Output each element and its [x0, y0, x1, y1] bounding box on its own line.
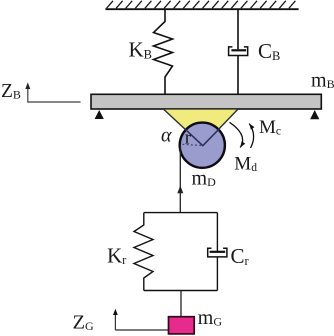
- svg-text:KB: KB: [129, 38, 153, 62]
- spring Kr on box left edge: [134, 213, 153, 291]
- svg-text:α: α: [161, 125, 172, 147]
- damper CB cup: [229, 47, 248, 56]
- radius r dashed line: [183, 144, 202, 145]
- axis ZG vertical: [114, 312, 116, 330]
- pendulum V lines: [185, 129, 219, 146]
- absorber box bottom edge: [144, 290, 218, 292]
- ceiling hatching: [107, 1, 296, 9]
- torque arc Mc: [249, 124, 253, 149]
- torque arc Md: [230, 122, 243, 147]
- cone edges: [164, 110, 238, 146]
- svg-text:Mc: Mc: [259, 117, 281, 138]
- axis ZG horizontal: [115, 329, 177, 331]
- spring KB: [154, 9, 173, 95]
- damper CB rod top: [237, 9, 239, 49]
- svg-text:Kr: Kr: [107, 243, 127, 267]
- axis ZG arrowhead: [113, 309, 118, 315]
- torque arc Md arrowhead: [238, 141, 245, 148]
- svg-text:ZB: ZB: [1, 81, 21, 102]
- svg-text:CB: CB: [258, 39, 280, 63]
- absorber box top edge: [144, 212, 218, 214]
- damper Cr rod top on box right edge: [216, 213, 218, 252]
- damper Cr rod bottom: [216, 257, 218, 291]
- svg-text:r: r: [185, 127, 192, 148]
- pendulum rod arrowhead up: [177, 186, 183, 194]
- damper CB rod bottom: [237, 56, 239, 95]
- damper CB piston plate: [231, 49, 246, 51]
- pendulum rod wire: [179, 147, 181, 213]
- mass mG: [169, 317, 195, 334]
- torque arc Mc arrowhead: [247, 122, 254, 129]
- support triangle right: [310, 110, 319, 119]
- cone: [164, 110, 238, 146]
- axis ZB arrowhead: [25, 83, 30, 90]
- wire box to mass mG: [180, 291, 182, 317]
- svg-text:ZG: ZG: [73, 311, 95, 333]
- svg-text:Md: Md: [234, 154, 257, 175]
- damper Cr piston plate: [210, 251, 226, 253]
- svg-text:mG: mG: [198, 307, 223, 329]
- svg-text:mD: mD: [192, 167, 217, 189]
- rotor disc mD: [180, 123, 225, 168]
- ceiling baseline: [105, 8, 298, 10]
- svg-text:mB: mB: [311, 70, 334, 92]
- svg-text:Cr: Cr: [231, 244, 250, 268]
- beam mass mB: [91, 94, 321, 109]
- support triangle left: [95, 110, 104, 119]
- axis ZB: [28, 86, 81, 102]
- damper Cr cup: [208, 248, 227, 257]
